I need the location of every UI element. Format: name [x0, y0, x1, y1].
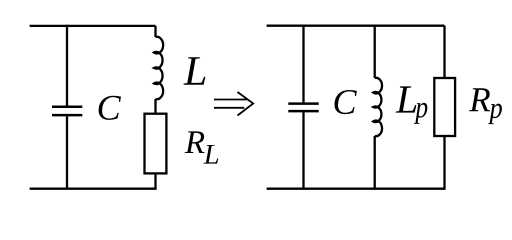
wire: coil to resistor RL — [154, 99, 156, 114]
inductor Lp coil — [373, 78, 382, 136]
wire: left circuit bottom rail — [30, 188, 157, 190]
wire: resistor Rp bottom lead — [443, 136, 445, 190]
resistor RL body — [145, 114, 167, 174]
label C (right) — [335, 90, 357, 114]
label L — [184, 57, 206, 85]
wire: left circuit top rail — [30, 25, 156, 27]
wire: capacitor C (right) bottom lead — [302, 112, 304, 190]
resistor Rp body — [434, 78, 455, 136]
wire: resistor RL bottom lead — [154, 173, 156, 188]
wire: right circuit top rail — [267, 25, 445, 27]
wire: top-right corner down to inductor — [154, 26, 156, 37]
capacitor C plates — [52, 107, 82, 115]
wire: inductor Lp bottom lead — [374, 136, 376, 190]
wire: right circuit bottom rail — [267, 188, 445, 190]
wire: capacitor C (right) top lead — [302, 25, 304, 103]
wire: resistor Rp top lead — [443, 26, 445, 78]
inductor L coil — [154, 37, 163, 99]
label Lp — [396, 86, 417, 112]
label RL — [185, 131, 205, 153]
wire: capacitor C bottom lead — [66, 116, 68, 188]
label Rp — [469, 88, 490, 111]
label C (left) — [99, 96, 121, 120]
wire: capacitor C top lead — [66, 25, 68, 106]
capacitor C (right) plates — [288, 104, 318, 112]
wire: inductor Lp top lead — [374, 25, 376, 78]
arrow Rightarrow — [214, 92, 253, 116]
